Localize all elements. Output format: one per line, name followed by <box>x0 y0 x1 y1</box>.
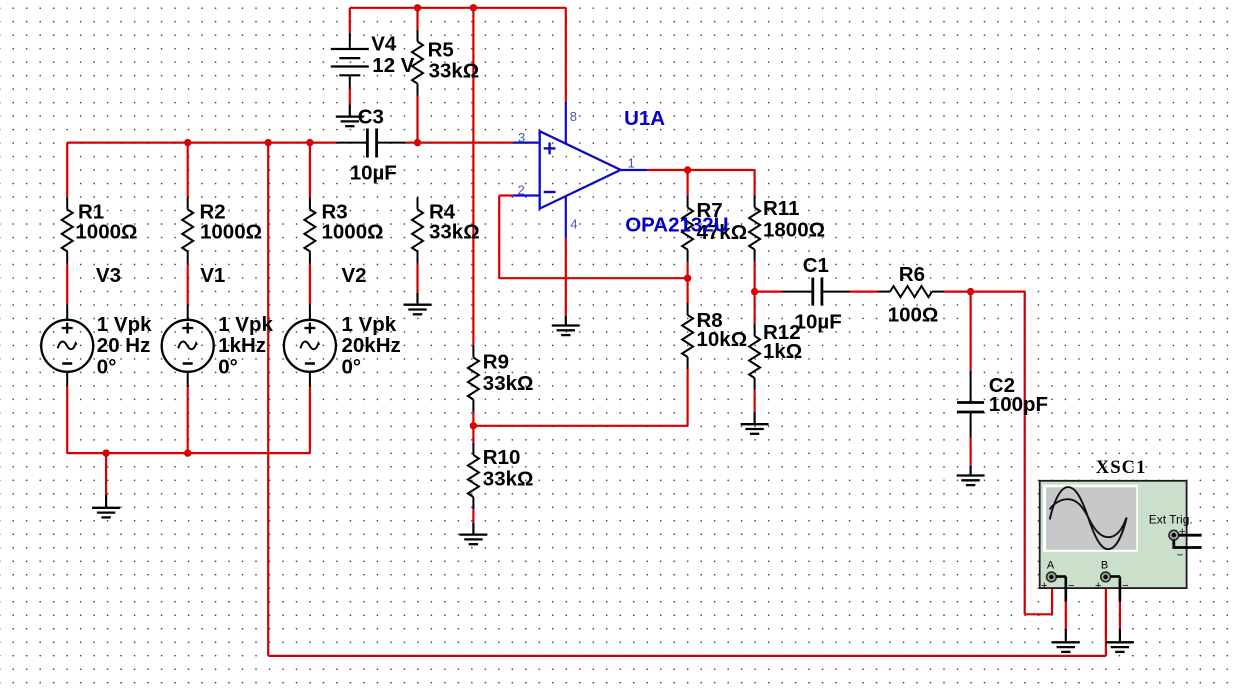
wire C3-right to op-amp pin 3 <box>405 142 513 144</box>
svg-text:10kΩ: 10kΩ <box>697 328 748 351</box>
svg-text:2: 2 <box>518 183 525 198</box>
wire V2 column <box>309 264 311 453</box>
svg-text:C1: C1 <box>803 254 829 277</box>
svg-text:B: B <box>1101 559 1108 571</box>
wire scope A minus segment <box>1065 602 1067 630</box>
node C3 / R5 / R4 / pin3 <box>414 139 421 146</box>
ground op-amp pin 4 <box>552 316 580 335</box>
ground sources rail <box>92 495 120 517</box>
svg-text:10µF: 10µF <box>350 161 397 184</box>
svg-text:1kΩ: 1kΩ <box>763 340 802 363</box>
svg-text:A: A <box>1047 559 1055 571</box>
wire top rail <box>350 7 566 9</box>
wire scope B minus segment <box>1119 602 1121 630</box>
oscilloscope XSC1 body <box>1040 458 1187 588</box>
resistor R9 <box>468 346 534 412</box>
svg-text:100pF: 100pF <box>989 393 1048 416</box>
wire op-amp pin 8 supply <box>565 8 567 102</box>
svg-text:1kHz: 1kHz <box>218 334 266 357</box>
wire R8 bottom to junction row <box>473 369 687 426</box>
wire R12 bottom stub <box>753 390 755 412</box>
wire V3 column <box>66 264 68 453</box>
wire R1 top drop <box>66 143 68 198</box>
resistor R11 <box>749 196 825 262</box>
svg-text:XSC1: XSC1 <box>1096 458 1147 478</box>
source V2 <box>284 264 401 387</box>
svg-text:1 Vpk: 1 Vpk <box>97 313 152 336</box>
svg-text:1: 1 <box>628 156 635 171</box>
svg-text:1800Ω: 1800Ω <box>763 218 825 241</box>
oscilloscope screen <box>1043 485 1138 552</box>
svg-text:0°: 0° <box>342 355 362 378</box>
oscilloscope terminal B <box>1095 559 1129 601</box>
node feedback / R7 / R8 <box>684 275 691 282</box>
svg-text:1000Ω: 1000Ω <box>322 220 384 243</box>
resistor R7 <box>682 196 747 262</box>
capacitor C3 <box>337 105 405 184</box>
op-amp part number OPA2132U <box>625 214 728 237</box>
wire to scope input A <box>1025 292 1052 615</box>
resistor R6 <box>878 263 944 327</box>
resistor R4 <box>412 197 480 263</box>
svg-text:+: + <box>1095 580 1101 592</box>
wire R7 top stub <box>686 170 688 196</box>
svg-text:1 Vpk: 1 Vpk <box>218 313 273 336</box>
node output / R7 <box>684 166 691 173</box>
resistor R5 <box>412 30 479 96</box>
wire feedback pin 2 loop <box>499 196 687 279</box>
wire R11 top stub <box>753 170 755 196</box>
wire sources rail ground stub <box>105 453 107 495</box>
wire V4 column top <box>349 8 351 33</box>
node top rail / R9 column <box>470 4 477 11</box>
node main bus / long vertical <box>265 139 272 146</box>
svg-text:+: + <box>1179 526 1185 538</box>
svg-text:V3: V3 <box>96 264 121 287</box>
node top rail / R5 <box>414 4 421 11</box>
svg-text:33kΩ: 33kΩ <box>429 60 480 83</box>
wire bottom rail to scope B <box>268 581 1106 656</box>
svg-text:−: − <box>1177 550 1183 562</box>
oscilloscope Ext Trig label <box>1149 513 1193 527</box>
svg-text:12 V: 12 V <box>372 54 414 77</box>
svg-text:V2: V2 <box>342 264 367 287</box>
battery V4 <box>331 33 415 105</box>
svg-text:1000Ω: 1000Ω <box>75 220 137 243</box>
svg-text:100Ω: 100Ω <box>888 303 939 326</box>
svg-text:V1: V1 <box>200 264 225 287</box>
wire long vertical from main bus to bottom rail <box>267 143 269 656</box>
wire R3 top drop <box>309 143 311 198</box>
wire op-amp output to R7/R11 <box>647 169 754 171</box>
node sources rail / V1 <box>184 449 191 456</box>
svg-text:20 Hz: 20 Hz <box>97 334 151 357</box>
oscilloscope terminal A <box>1041 559 1074 601</box>
svg-text:+: + <box>1041 580 1047 592</box>
wire R9 column from top rail <box>472 8 474 346</box>
svg-text:Ext Trig.: Ext Trig. <box>1149 513 1193 527</box>
source V3 <box>41 264 152 387</box>
resistor R8 <box>682 303 747 369</box>
node sources rail ground <box>102 449 109 456</box>
svg-text:−: − <box>1068 580 1074 592</box>
wire R4 bottom to ground <box>416 264 418 293</box>
oscilloscope ext trig terminal <box>1169 526 1202 562</box>
wire R8 top stub <box>686 278 688 303</box>
resistor R12 <box>749 321 802 391</box>
svg-text:R9: R9 <box>483 351 509 374</box>
svg-text:8: 8 <box>570 109 577 124</box>
capacitor C2 <box>957 371 1048 438</box>
wire C2 bottom stub <box>969 438 971 467</box>
svg-text:0°: 0° <box>97 355 117 378</box>
wire R5 column <box>416 8 418 143</box>
wire main input bus y=142.6 <box>67 142 336 144</box>
wire R2 top drop <box>187 143 189 198</box>
node main bus / R2 <box>184 139 191 146</box>
svg-text:33kΩ: 33kΩ <box>483 468 534 491</box>
svg-text:20kHz: 20kHz <box>342 334 401 357</box>
node main bus / R3 <box>306 139 313 146</box>
resistor R3 <box>304 197 383 263</box>
svg-text:10µF: 10µF <box>795 311 842 334</box>
node R11 / R12 / C1 <box>751 288 758 295</box>
svg-text:4: 4 <box>570 216 577 231</box>
wire R10 bottom stub <box>472 509 474 523</box>
resistor R1 <box>62 197 138 263</box>
svg-text:0°: 0° <box>218 355 238 378</box>
ground under R4 <box>404 293 432 315</box>
resistor R10 <box>468 443 534 509</box>
svg-text:1000Ω: 1000Ω <box>200 220 262 243</box>
ground scope B <box>1106 629 1134 652</box>
svg-text:V4: V4 <box>371 33 397 56</box>
wire R11 bottom stub <box>753 262 755 292</box>
node C2 branch <box>967 288 974 295</box>
svg-text:U1A: U1A <box>624 107 665 130</box>
svg-text:R10: R10 <box>483 446 521 469</box>
svg-text:33kΩ: 33kΩ <box>483 372 534 395</box>
svg-text:R5: R5 <box>428 39 454 62</box>
op-amp U1A OPA2132U <box>513 102 665 238</box>
wire R12 top stub <box>753 292 755 324</box>
resistor R2 <box>182 197 262 263</box>
node R9 / R10 / R8 <box>470 422 477 429</box>
svg-text:R11: R11 <box>763 197 799 220</box>
wire R7 bottom stub <box>686 262 688 278</box>
ground under C2 <box>957 466 985 485</box>
wire V1 column <box>187 264 189 453</box>
wire R9 bottom stub <box>472 412 474 443</box>
svg-text:3: 3 <box>518 130 525 145</box>
ground under R12 <box>741 412 769 434</box>
svg-text:R6: R6 <box>899 263 925 286</box>
svg-text:OPA2132U: OPA2132U <box>625 214 728 237</box>
ground under battery V4 <box>336 104 364 126</box>
source V1 <box>162 264 274 387</box>
wire sources bottom rail <box>67 452 310 454</box>
wire C1 row <box>755 291 1025 293</box>
svg-text:33kΩ: 33kΩ <box>429 220 480 243</box>
ground under R10 <box>459 523 487 544</box>
svg-text:−: − <box>1122 580 1128 592</box>
capacitor C1 <box>782 254 851 334</box>
svg-text:C3: C3 <box>358 105 384 128</box>
wire C2 top stub <box>969 292 971 371</box>
op-amp pin numbers <box>518 109 635 231</box>
svg-text:1 Vpk: 1 Vpk <box>342 313 397 336</box>
wire op-amp pin 4 to ground <box>565 238 567 317</box>
ground scope A <box>1052 629 1080 652</box>
